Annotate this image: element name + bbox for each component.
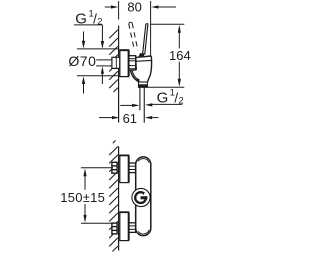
svg-text:Ø70: Ø70 — [68, 53, 96, 69]
svg-text:61: 61 — [123, 111, 137, 126]
svg-text:80: 80 — [127, 0, 141, 15]
svg-text:150±15: 150±15 — [60, 190, 105, 205]
svg-text:164: 164 — [169, 48, 191, 63]
